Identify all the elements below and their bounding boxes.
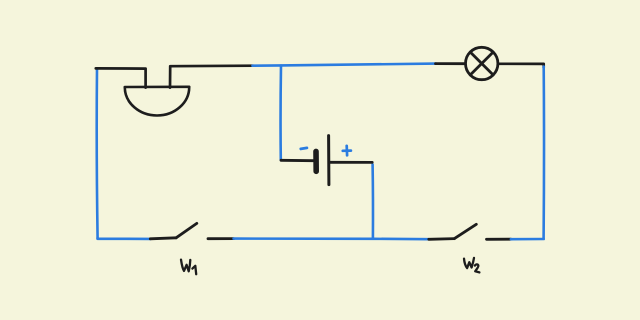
wire (battery right lead black) (330, 161, 372, 164)
wire (left vertical, blue) (95, 69, 98, 239)
wire (lamp right black to corner) (498, 64, 544, 68)
wire (bottom right blue) (511, 238, 544, 241)
label W1 (181, 260, 196, 275)
lamp (466, 47, 498, 79)
wire (lamp left black) (436, 62, 466, 65)
wire (top-left black with bell left lead) (96, 68, 146, 87)
label + (battery positive) (343, 146, 351, 156)
wire (right vertical, blue) (542, 67, 545, 239)
wire (bell right lead + top middle black) (170, 66, 253, 88)
wire (bottom middle blue) (234, 237, 429, 240)
label - (battery negative) (301, 148, 307, 149)
wire (bottom-left blue) (98, 237, 151, 240)
label W2 (464, 258, 479, 273)
bell (125, 87, 189, 116)
wire (battery positive drop, blue) (371, 165, 374, 239)
wire (battery left lead black) (281, 159, 313, 162)
switch W1 (150, 223, 233, 238)
switch W2 (429, 224, 511, 239)
battery (cell) (316, 136, 329, 185)
wire (top middle blue) (253, 64, 437, 66)
wire (battery negative drop, blue) (279, 66, 282, 160)
